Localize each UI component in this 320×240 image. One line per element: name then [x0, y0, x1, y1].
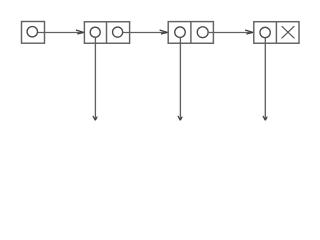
wire node 1 to node 2: [123, 32, 168, 34]
wire node 3 data down: [264, 38, 266, 120]
wire head to node 1: [38, 32, 84, 34]
arrowhead node 2 data down: [178, 116, 182, 120]
node 3 divider: [275, 22, 277, 44]
arrowhead into node 3: [245, 30, 253, 34]
node 2 data circle: [175, 27, 186, 38]
wire node 2 to node 3: [208, 32, 253, 34]
node 3 data circle: [260, 27, 270, 37]
node 2 next circle: [197, 27, 208, 38]
arrowhead node 1 data down: [93, 116, 97, 120]
wire node 1 data down: [94, 37, 96, 119]
arrowhead into node 1: [76, 30, 84, 34]
arrowhead node 3 data down: [263, 116, 267, 120]
node 2 divider: [190, 22, 192, 44]
null cross X: [282, 26, 295, 38]
node 1 divider: [106, 22, 108, 44]
node 1 data circle: [90, 27, 100, 37]
wire node 2 data down: [179, 37, 181, 119]
arrowhead into node 2: [160, 30, 168, 34]
node 1 next circle: [113, 27, 123, 37]
head node box: [22, 22, 45, 44]
node 2 box: [168, 22, 213, 44]
head pointer circle: [27, 27, 37, 37]
node 1 box: [84, 22, 129, 44]
node 3 box: [254, 22, 299, 44]
